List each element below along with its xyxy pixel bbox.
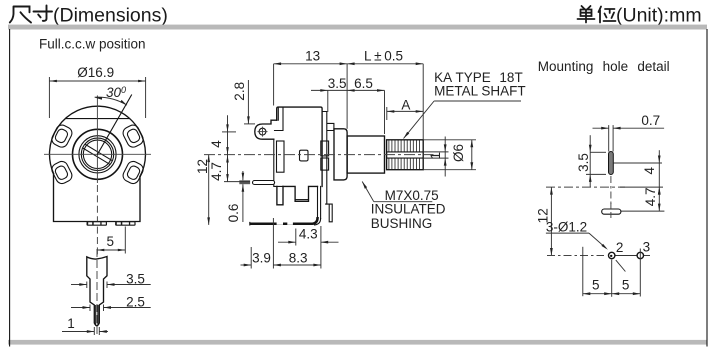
side dimension 4.3 (295, 229, 297, 246)
svg-text:3-Ø1.2: 3-Ø1.2 (546, 220, 587, 235)
mounting center cross (546, 186, 625, 188)
pin detail dimension 3.5 (86, 282, 88, 289)
unit chinese 单位 glyph strokes (578, 6, 616, 23)
side dimension 12 (208, 155, 210, 225)
front view body circle Ø16.9 (49, 106, 145, 176)
side view left inner tab (277, 141, 285, 172)
front view base pin tab row 1 (87, 221, 108, 226)
side dimension 1 (slot width) (423, 151, 448, 153)
side dimension 8.3 (272, 218, 274, 269)
front view hub ring circles (79, 136, 116, 173)
front view 30 degree arc with arrows (95, 97, 127, 105)
svg-text:BUSHING: BUSHING (371, 216, 433, 231)
svg-text:0.6: 0.6 (226, 204, 241, 223)
front view top chord line (66, 118, 130, 120)
front view base pin tab row 2 (115, 221, 136, 226)
svg-text:1: 1 (67, 316, 75, 331)
side view bushing collar (334, 129, 347, 180)
svg-text:12: 12 (195, 159, 210, 174)
side dimension 0.6 (242, 171, 244, 180)
side dimension A (386, 107, 388, 120)
side view knurl ridges (389, 140, 420, 170)
frame top gray bar (8, 25, 707, 30)
svg-text:(Dimensions): (Dimensions) (53, 5, 168, 27)
mounting hole 3 (right) (637, 252, 643, 258)
side view bracket foot (250, 217, 318, 224)
svg-text:4: 4 (209, 140, 224, 148)
svg-text:2.5: 2.5 (126, 295, 145, 310)
front view lug top-left (50, 123, 74, 149)
svg-text:5: 5 (107, 234, 115, 249)
svg-text:3.5: 3.5 (328, 76, 347, 91)
side view bracket leg (318, 186, 321, 218)
svg-text:8.3: 8.3 (289, 250, 308, 265)
front view 30 degree pointer line (98, 95, 132, 154)
svg-text:Mounting hole detail: Mounting hole detail (538, 59, 670, 74)
svg-text:3.5: 3.5 (126, 271, 145, 286)
front view terminal pin detail (87, 257, 107, 326)
mounting dimension 4.7 (621, 210, 665, 212)
side view back plate (322, 112, 334, 205)
svg-text:13: 13 (305, 49, 320, 64)
mounting dimension 12 (550, 187, 552, 255)
side view bottom tab U (283, 186, 318, 201)
side dimension 4 (222, 131, 236, 133)
side view shaft slot lines (387, 151, 424, 153)
side view centerline (204, 154, 434, 156)
side dimension Ø6 (423, 139, 476, 141)
svg-text:(Unit):mm: (Unit):mm (616, 5, 702, 27)
frame right border (706, 30, 708, 347)
svg-text:Ø6: Ø6 (451, 144, 466, 162)
front view lug bottom-left (50, 159, 74, 185)
svg-text:A: A (401, 97, 410, 112)
mounting hole 2 (center) (609, 252, 615, 258)
side view center square (300, 150, 309, 161)
side view pin 1 (277, 186, 283, 204)
mounting dimension 3.5 (590, 151, 606, 153)
front view lug top-right (121, 123, 145, 149)
side view neck between bushing and knurl (384, 140, 386, 170)
side view back lower legs (326, 204, 333, 222)
side view rear terminal (dark) (239, 180, 250, 184)
mounting left hole tick (582, 247, 584, 296)
svg-text:0.7: 0.7 (641, 113, 660, 128)
svg-text:Ø16.9: Ø16.9 (77, 65, 114, 80)
front view horizontal centerline (44, 153, 151, 155)
frame bottom gray bar (8, 340, 707, 345)
svg-text:5: 5 (592, 277, 600, 292)
side view shaft knurled section (387, 140, 424, 170)
svg-text:INSULATED: INSULATED (371, 202, 446, 217)
svg-text:METAL SHAFT: METAL SHAFT (434, 83, 526, 98)
mounting dimension 4 (613, 162, 662, 164)
mounting dimension 0.7 (593, 127, 609, 129)
svg-text:4.3: 4.3 (299, 226, 318, 241)
mounting dimensions 5 and 5 (611, 260, 613, 297)
side view body outline (277, 107, 322, 186)
front view base rectangle (54, 173, 141, 221)
side view back tabs (321, 141, 329, 156)
mounting keyway slot (609, 152, 614, 175)
front view dimension 5 (124, 227, 126, 254)
svg-text:L ± 0.5: L ± 0.5 (364, 49, 403, 64)
side dimension 3.9 (250, 247, 252, 269)
side view body inner front edge (274, 107, 283, 186)
front view lug bottom-right (121, 159, 145, 185)
mounting horizontal slot (602, 209, 621, 214)
side dimension 2.8 (244, 123, 255, 125)
side view wiper terminal (outlined) (253, 181, 275, 185)
svg-text:1: 1 (428, 152, 443, 160)
svg-text:2: 2 (616, 240, 624, 255)
side dimension 13 (273, 64, 275, 106)
pin detail centerline (96, 249, 98, 336)
front view dimension Ø16.9 (48, 77, 50, 118)
svg-text:2.8: 2.8 (232, 82, 247, 101)
svg-text:5: 5 (622, 277, 630, 292)
svg-text:3.5: 3.5 (576, 153, 591, 172)
front view hub outer circle (73, 129, 123, 179)
title chinese 尺寸 glyph strokes (10, 6, 52, 23)
side view lug hole (259, 128, 266, 135)
frame left border (9, 30, 11, 347)
front view shaft slot lines (83, 144, 112, 164)
svg-text:4.7: 4.7 (643, 188, 658, 207)
side dimension 6.5 (384, 90, 386, 134)
front view vertical centerline (96, 95, 98, 183)
side dimension 3.5 (327, 90, 329, 112)
pin detail dimension 1 (93, 327, 95, 335)
svg-text:4.7: 4.7 (209, 162, 224, 181)
mounting keyway ext lines (608, 125, 610, 151)
side view mounting lug (255, 120, 277, 139)
svg-text:6.5: 6.5 (354, 76, 373, 91)
side dimension L +/- 0.5 (422, 64, 424, 140)
side dimension 4.7 (224, 181, 250, 183)
svg-text:3: 3 (643, 239, 651, 254)
svg-text:4: 4 (642, 166, 657, 174)
svg-text:Full.c.c.w position: Full.c.c.w position (39, 37, 146, 52)
side view threaded bushing (347, 136, 384, 173)
mounting holes row centerline (547, 255, 604, 257)
svg-text:3.9: 3.9 (252, 250, 271, 265)
pin detail dimension 2.5 (89, 305, 91, 312)
